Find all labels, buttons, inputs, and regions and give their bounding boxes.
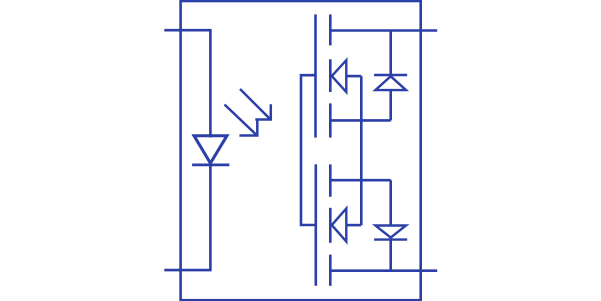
MOSFET Q1 body arrow <box>332 60 347 92</box>
light arrow 1 head <box>255 104 270 119</box>
body diode D3 top lead <box>389 180 392 225</box>
cathode input terminal wire <box>164 269 211 272</box>
MOSFET Q2 body wire <box>346 224 361 227</box>
MOSFET Q2 channel segment (drain) <box>329 255 332 286</box>
light arrow 1 shaft <box>240 89 270 119</box>
MOSFET Q1 gate <box>314 14 317 137</box>
MOSFET Q1 body wire <box>346 75 361 78</box>
outer package box <box>181 1 421 300</box>
body diode D3 bottom lead <box>389 240 392 271</box>
LED D1 anode wire <box>209 30 212 137</box>
anode input terminal wire <box>164 29 211 32</box>
body diode D3 triangle <box>375 226 406 238</box>
MOSFET Q1 channel segment (drain) <box>329 14 332 45</box>
MOSFET Q1 channel segment (source) <box>329 103 332 137</box>
MOSFET Q2 drain wire to output terminal 2 <box>330 269 437 272</box>
MOSFET Q2 channel segment (body) <box>329 208 332 243</box>
body diode D2 bottom lead <box>389 90 392 120</box>
MOSFET Q1 source wire <box>330 119 390 122</box>
light arrow 2 shaft <box>225 105 258 136</box>
source-source link wire <box>360 76 363 225</box>
light arrow 2 head <box>239 120 257 136</box>
MOSFET Q2 channel segment (source) <box>329 164 332 196</box>
MOSFET Q2 gate <box>314 164 317 285</box>
body diode D2 top lead <box>389 31 392 76</box>
gate bus wire <box>301 75 316 225</box>
body diode D2 triangle <box>375 76 406 90</box>
LED D1 triangle <box>194 136 227 164</box>
body diode D2 cathode bar <box>374 74 407 76</box>
LED D1 cathode wire <box>209 165 212 270</box>
MOSFET Q2 body arrow <box>332 209 347 242</box>
LED D1 cathode bar <box>192 163 229 166</box>
MOSFET Q1 channel segment (body) <box>329 59 332 92</box>
MOSFET Q2 source wire <box>330 179 390 182</box>
MOSFET Q1 drain wire to output terminal 1 <box>330 29 437 32</box>
body diode D3 cathode bar <box>374 238 407 240</box>
